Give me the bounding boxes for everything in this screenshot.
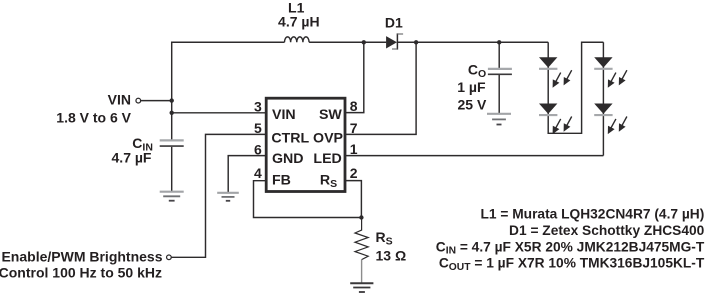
svg-text:25 V: 25 V xyxy=(457,96,486,112)
svg-text:SW: SW xyxy=(319,107,342,123)
svg-text:Control 100 Hz to 50 kHz: Control 100 Hz to 50 kHz xyxy=(0,265,162,281)
wire LED pin 1 rail xyxy=(345,155,603,157)
svg-text:VIN: VIN xyxy=(272,107,296,123)
ground RS xyxy=(350,283,373,292)
svg-text:L1 = Murata LQH32CN4R7 (4.7 µH: L1 = Murata LQH32CN4R7 (4.7 µH) xyxy=(481,207,705,222)
node SW xyxy=(362,40,366,44)
svg-text:3: 3 xyxy=(254,99,262,115)
svg-text:Enable/PWM Brightness: Enable/PWM Brightness xyxy=(1,249,162,265)
svg-text:8: 8 xyxy=(350,98,358,114)
wire OVP pin 7 xyxy=(345,42,416,134)
svg-text:13 Ω: 13 Ω xyxy=(376,247,407,263)
LED 3 xyxy=(594,57,627,88)
svg-text:D1 = Zetex Schottky ZHCS400: D1 = Zetex Schottky ZHCS400 xyxy=(509,223,705,238)
terminal VIN xyxy=(136,98,141,103)
svg-text:1: 1 xyxy=(350,141,358,157)
wire CIN to ground xyxy=(171,147,173,191)
svg-text:COUT = 1 µF X7R 10% TMK316BJ10: COUT = 1 µF X7R 10% TMK316BJ105KL-T xyxy=(439,256,705,273)
ground CO xyxy=(487,114,511,125)
wire VIN terminal to input node xyxy=(141,100,172,102)
node CO xyxy=(497,40,501,44)
node diode cathode xyxy=(414,40,418,44)
svg-text:4: 4 xyxy=(254,165,262,181)
wire node to pin 3 xyxy=(172,112,266,114)
svg-text:VIN: VIN xyxy=(108,92,131,108)
svg-text:GND: GND xyxy=(272,151,304,167)
wire CO top xyxy=(498,42,500,68)
ground GND pin xyxy=(217,193,239,201)
wire RS pin 2 xyxy=(345,181,361,218)
LED 4 xyxy=(594,104,627,135)
LED 2 xyxy=(539,104,572,135)
wire SW pin 8 xyxy=(345,42,364,112)
svg-text:CTRL: CTRL xyxy=(271,131,309,147)
wire GND pin 6 xyxy=(228,156,266,193)
svg-text:2: 2 xyxy=(350,165,358,181)
wire rail L1 to D1 xyxy=(309,41,386,43)
wire input vertical rail xyxy=(172,42,285,139)
diode D1 xyxy=(386,33,403,49)
node input-dot2 xyxy=(170,111,174,115)
svg-text:1.8 V to 6 V: 1.8 V to 6 V xyxy=(56,109,131,125)
svg-text:CIN = 4.7 µF X5R 20% JMK212BJ4: CIN = 4.7 µF X5R 20% JMK212BJ475MG-T xyxy=(436,239,705,256)
wire RS to ground xyxy=(361,260,363,283)
inductor L1 xyxy=(285,37,310,42)
capacitor CO xyxy=(488,69,512,74)
node input-dot1 xyxy=(170,98,174,102)
wire CTRL pin 5 xyxy=(172,134,267,257)
wire LED string 1 xyxy=(548,42,603,133)
svg-text:LED: LED xyxy=(313,151,341,167)
op-amp U1 box xyxy=(266,98,345,191)
ground CIN xyxy=(160,192,184,201)
svg-text:4.7 µH: 4.7 µH xyxy=(278,13,320,29)
resistor RS xyxy=(355,218,368,260)
wire rail D1 to LEDs xyxy=(397,41,548,43)
wire LED string 2 xyxy=(602,42,604,155)
wire FB pin 4 xyxy=(254,181,362,218)
svg-text:OVP: OVP xyxy=(313,131,343,147)
svg-text:FB: FB xyxy=(272,173,291,189)
terminal enable xyxy=(167,255,172,260)
LED 1 xyxy=(539,57,572,88)
node RS xyxy=(359,215,363,219)
svg-text:4.7 µF: 4.7 µF xyxy=(112,149,152,165)
wire CO to ground xyxy=(498,75,500,113)
svg-text:1 µF: 1 µF xyxy=(457,79,486,95)
svg-text:7: 7 xyxy=(350,120,358,136)
capacitor CIN xyxy=(160,140,184,146)
svg-text:D1: D1 xyxy=(385,15,403,31)
